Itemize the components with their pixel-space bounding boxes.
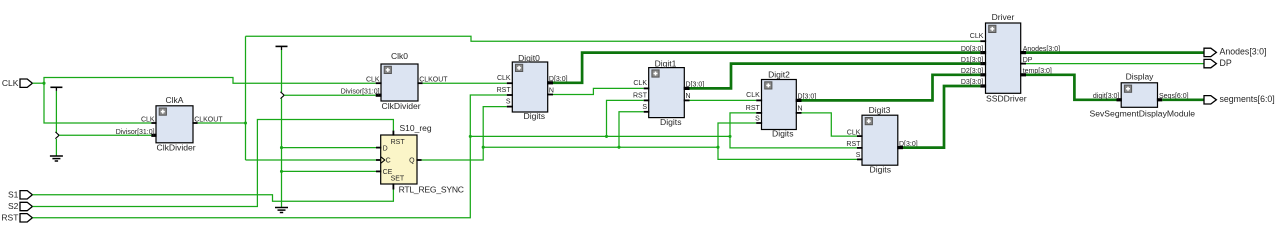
wire constant net vertical at ClkA [55,91,57,156]
svg-text:Divisor[31:0]: Divisor[31:0] [341,89,380,96]
svg-text:C: C [386,158,391,165]
svg-text:SET: SET [391,176,405,183]
bus Display.Segs to segments port [1162,98,1204,101]
ground symbol for ClkA divisor constant [50,156,63,161]
power VCC symbol for ClkA divisor constant [50,87,62,91]
svg-text:CLK: CLK [746,92,760,99]
svg-text:Driver: Driver [992,12,1015,22]
bus Digit3.D to Driver.D3[3:0] [903,86,980,148]
input port S1 [8,189,32,199]
wire S to Digit2.S [718,123,756,147]
svg-text:CLK: CLK [497,75,511,82]
bus Digit2.D to Driver.D2[3:0] [802,75,981,101]
svg-text:S: S [642,104,647,111]
wire CLK to Clk0.CLK (upper branch) [44,78,376,84]
svg-text:D0[3:0]: D0[3:0] [961,46,984,53]
wire S rail [483,146,718,148]
svg-text:ClkDivider: ClkDivider [382,101,421,111]
svg-text:CLK: CLK [633,80,647,87]
wire ClkA.CLKOUT to vertical trunk [198,122,246,124]
svg-text:N: N [549,87,554,94]
junction CLK node [42,82,45,85]
wire constant to S10_reg.D [282,147,377,149]
bus Driver.Anodes to output port [1026,51,1204,54]
junction RST to Digit1 [605,135,608,138]
svg-text:CLKOUT: CLKOUT [419,77,448,84]
junction RST to Digit2 [728,135,731,138]
module Display (SevSegmentDisplayModule) [1090,71,1196,118]
svg-text:ClkA: ClkA [166,95,184,105]
wire CLK to ClkA.CLK (lower branch) [44,83,151,123]
svg-text:S2: S2 [8,201,19,211]
svg-text:CLK: CLK [366,77,380,84]
ground symbol for Clk0 divisor constant [275,208,288,213]
svg-text:segments[6:0]: segments[6:0] [1220,94,1275,104]
svg-text:RST: RST [391,139,406,146]
wire constant to S10_reg.CE [282,170,377,172]
wire S to Digit1.S [619,112,644,147]
bus Digit0.D to Driver.D0[3:0] [553,53,980,83]
wire RST to Digit2.RST [730,113,756,136]
wire S1 to S10_reg.SET [33,189,394,201]
svg-text:Anodes[3:0]: Anodes[3:0] [1220,47,1267,57]
svg-text:N: N [798,106,803,113]
wire Divisor[31:0] into Clk0 [284,94,376,96]
wire Divisor[31:0] into ClkA [59,134,151,136]
wire Clk0.CLKOUT to Digit0.CLK [423,82,507,84]
svg-text:RST: RST [746,105,761,112]
svg-text:Digits: Digits [524,111,546,121]
bus tap chevron into ClkA Divisor [55,132,59,139]
output port DP [1204,58,1232,68]
wire CLK from port to junction [33,82,44,84]
wire A_Clk to Driver.CLK [246,36,981,41]
module Digit1 (Digits) [633,59,704,127]
svg-text:Digit2: Digit2 [768,70,790,80]
svg-text:Digits: Digits [870,164,892,174]
wire Digit1.N to Digit2.CLK [690,99,757,101]
junction RST rail start [469,135,472,138]
wire Digit2.N to Digit3.CLK [802,113,858,136]
svg-text:S: S [856,152,861,159]
wire Driver.DP to output port [1026,63,1204,65]
wire S rail jog to Digit3.S [718,147,857,159]
svg-text:Q: Q [409,158,415,165]
wire S2 to S10_reg.RST [33,120,394,207]
svg-text:S: S [506,99,511,106]
svg-text:ClkDivider: ClkDivider [157,143,196,153]
svg-text:S1: S1 [8,189,19,199]
bus Driver.temp to Display.digit [1026,75,1117,100]
input port RST [1,212,32,222]
svg-text:D1[3:0]: D1[3:0] [961,57,984,64]
module Digit2 (Digits) [746,70,816,139]
svg-text:RST: RST [1,212,18,222]
module Digit0 (Digits) [497,53,568,121]
svg-text:Digit3: Digit3 [869,105,891,115]
svg-text:RST: RST [633,93,648,100]
svg-text:D: D [383,145,388,152]
svg-text:RTL_REG_SYNC: RTL_REG_SYNC [399,184,464,194]
bus tap chevron into Clk0 Divisor [281,92,285,99]
junction S to Digit2 [716,146,719,149]
svg-text:Clk0: Clk0 [391,51,408,61]
wire RST to Digit1.RST [607,100,644,136]
svg-text:DP: DP [1220,58,1232,68]
svg-text:digit[3:0]: digit[3:0] [1093,93,1120,100]
svg-text:Divisor[31:0]: Divisor[31:0] [116,129,155,136]
wire RST rail [470,135,730,137]
module Driver (SSDDriver) [961,12,1060,103]
wire constant net vertical at Clk0 [281,50,283,207]
junction constant to S10_reg.CE [280,170,283,173]
module Clk0 (ClkDivider) [341,51,449,111]
module Digit3 (Digits) [846,105,917,174]
svg-text:RST: RST [497,87,512,94]
svg-text:SSDDriver: SSDDriver [986,93,1027,103]
input port CLK [2,78,33,88]
svg-text:D2[3:0]: D2[3:0] [961,68,984,75]
junction A_Clk trunk [244,121,247,124]
svg-text:S10_reg: S10_reg [400,123,432,133]
output port segments[6:0] [1204,94,1275,104]
wire A_Clk vertical trunk [245,36,247,160]
svg-text:DP: DP [1023,57,1033,64]
svg-text:CLK: CLK [2,78,19,88]
wire Digit0.N to Digit1.CLK [553,88,644,94]
svg-text:N: N [686,93,691,100]
output port Anodes[3:0] [1204,47,1266,57]
wire RST rail jog to Digit3.RST [730,136,857,148]
junction S to Digit1 [617,146,620,149]
power VCC symbol for Clk0 divisor constant [276,46,288,50]
input port S2 [8,201,32,211]
svg-text:D3[3:0]: D3[3:0] [961,79,984,86]
svg-text:Digits: Digits [660,117,682,127]
module ClkA (ClkDivider) [116,95,224,153]
svg-text:RST: RST [846,141,861,148]
svg-text:S: S [755,116,760,123]
bus Digit1.D to Driver.D1[3:0] [690,64,981,89]
svg-text:Digits: Digits [772,129,794,139]
junction constant to S10_reg.D [280,146,283,149]
junction S rail start [482,146,485,149]
svg-text:CLK: CLK [847,129,861,136]
svg-text:CLK: CLK [141,117,155,124]
wire RST from port along bottom and up to Digit0.RST [33,95,507,218]
wire S10_reg.Q up to Digit0.S [422,107,507,160]
svg-text:Digit1: Digit1 [655,59,677,69]
svg-text:Digit0: Digit0 [518,53,540,63]
wire A_Clk to S10_reg.C [246,159,377,161]
svg-text:CLK: CLK [970,33,984,40]
register S10_reg (RTL_REG_SYNC) [376,123,464,194]
svg-text:Display: Display [1126,71,1155,81]
svg-text:SevSegmentDisplayModule: SevSegmentDisplayModule [1090,108,1196,118]
